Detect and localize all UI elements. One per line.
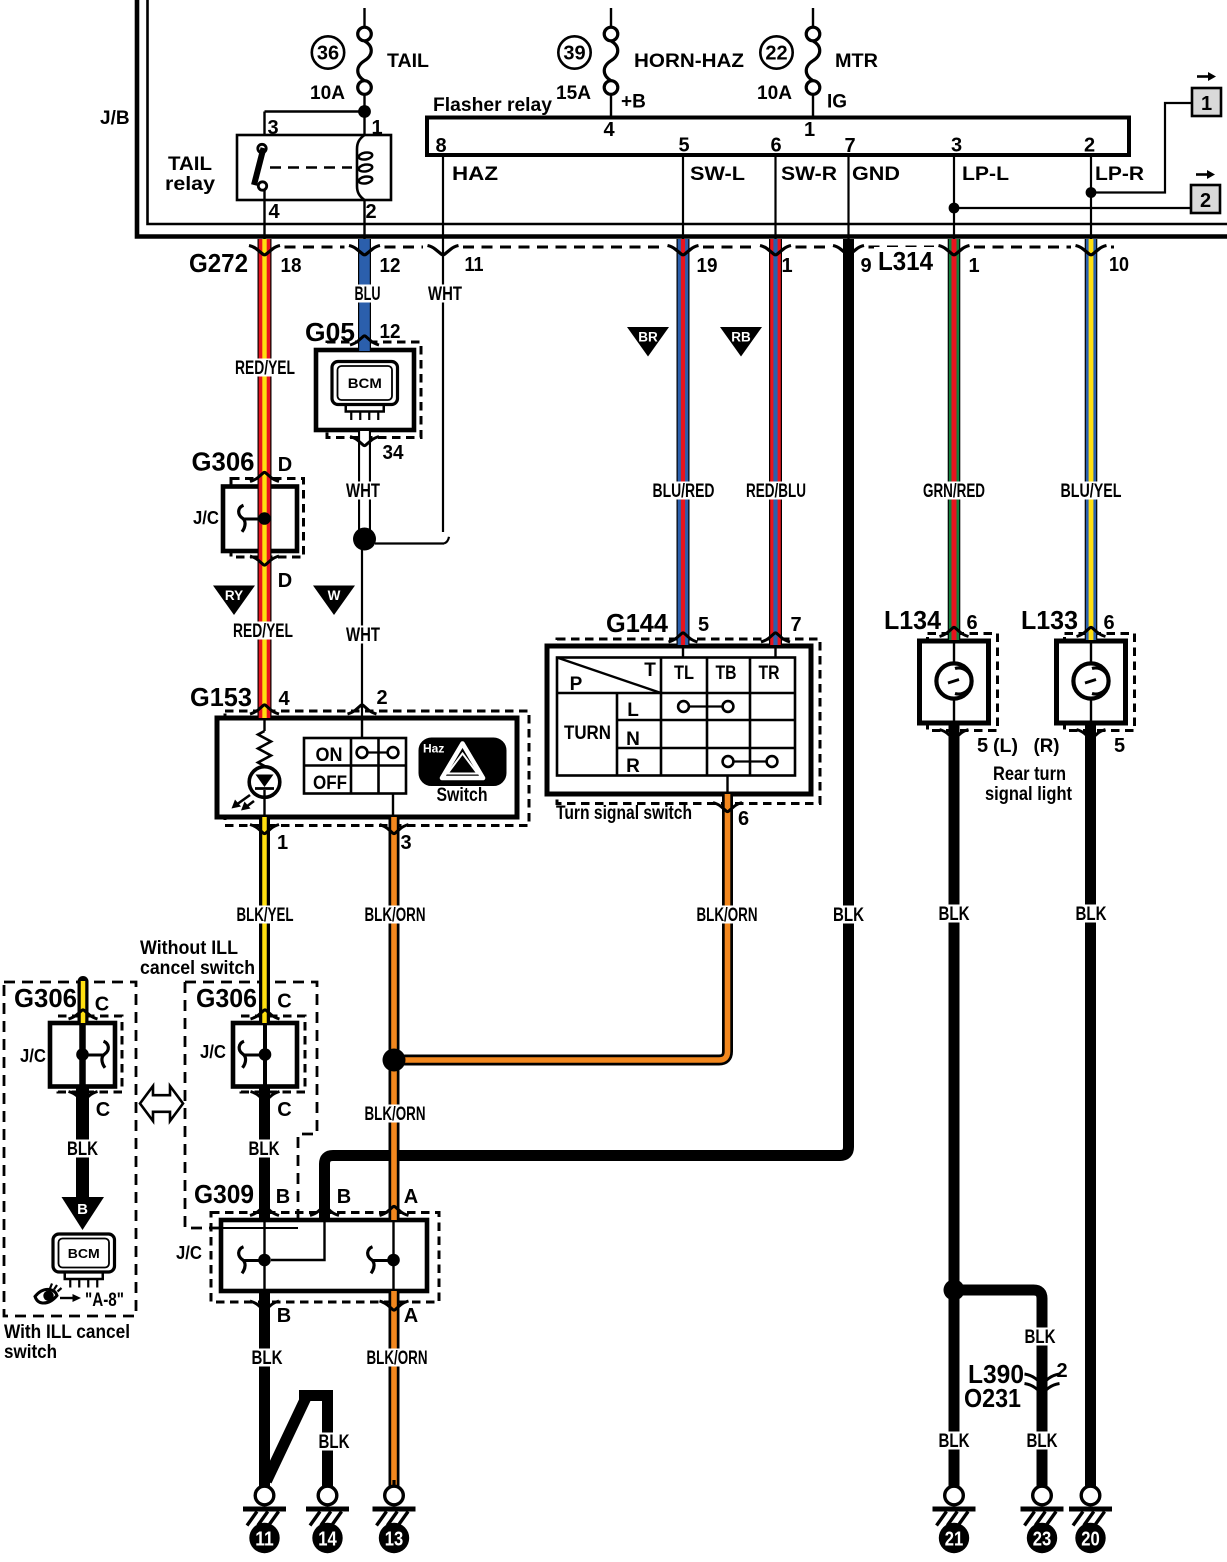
svg-text:BLK/YEL: BLK/YEL: [237, 905, 294, 926]
svg-text:4: 4: [268, 201, 280, 223]
svg-text:GND: GND: [852, 164, 900, 185]
label BLK (to ground 21): [936, 1432, 973, 1450]
label BLK/ORN (from G144): [694, 906, 761, 924]
G306 center line: [263, 487, 265, 552]
svg-text:9: 9: [860, 255, 871, 277]
svg-text:LP-R: LP-R: [1095, 164, 1144, 185]
color code arrow W: [313, 586, 355, 616]
wire GND (pin 7) down: [847, 155, 849, 240]
label WHT (lower): [343, 626, 383, 644]
label RED/BLU: [743, 482, 809, 500]
flasher relay box: [427, 118, 1129, 156]
G306 without-ILL pin C chevron (top): [251, 1010, 280, 1019]
svg-text:1: 1: [277, 832, 288, 854]
svg-text:BCM: BCM: [348, 375, 382, 391]
svg-text:BLK: BLK: [939, 904, 970, 925]
G306 without-ILL pin C chevron (bottom): [251, 1092, 280, 1101]
svg-text:Switch: Switch: [437, 785, 488, 806]
label BLK (to ground 11): [249, 1349, 286, 1367]
svg-text:W: W: [328, 588, 341, 603]
svg-text:BLK: BLK: [939, 1431, 970, 1452]
wire G144 pin7 stub: [774, 646, 776, 658]
svg-text:BCM: BCM: [68, 1246, 100, 1261]
bulb (rear turn signal L133): [1090, 641, 1092, 664]
svg-text:WHT: WHT: [346, 625, 380, 646]
svg-text:L134: L134: [884, 605, 942, 635]
svg-text:5: 5: [698, 614, 709, 636]
svg-text:TAIL: TAIL: [387, 51, 429, 72]
node fuse36/relay junction: [358, 105, 371, 118]
wire BLK (L133-5 to ground 20): [1085, 723, 1096, 1487]
svg-text:OFF: OFF: [313, 773, 347, 794]
label RED/YEL (lower): [230, 622, 296, 640]
G306 with-ILL center line: [79, 1023, 86, 1087]
wire BLK/YEL (G153-1 to G306-C): [259, 817, 270, 1023]
L134 solid box: [920, 641, 989, 723]
svg-text:HAZ: HAZ: [452, 164, 498, 185]
sheet reference box 2: [1196, 173, 1208, 176]
svg-text:1: 1: [968, 255, 979, 277]
label BLK/ORN (below junction): [362, 1105, 429, 1123]
svg-text:J/C: J/C: [200, 1042, 226, 1062]
fuse 39 HORN-HAZ 15A: [610, 8, 612, 27]
svg-text:J/C: J/C: [176, 1243, 202, 1263]
wire fuse 36 to TAIL relay pin 1: [363, 95, 365, 136]
svg-text:G272: G272: [189, 248, 248, 278]
svg-text:13: 13: [385, 1528, 404, 1551]
node LP-L branch: [949, 203, 960, 214]
wire BLK (G309-B to ground 11): [259, 1291, 270, 1487]
svg-text:2: 2: [365, 201, 376, 223]
wire BLK ground bus (G272-9 to G309-B): [325, 239, 849, 1220]
svg-text:BLK: BLK: [319, 1432, 350, 1453]
svg-text:Flasher relay: Flasher relay: [433, 94, 552, 116]
svg-text:G144: G144: [606, 608, 669, 638]
G144 R-row contacts: [723, 756, 734, 767]
connector G272/L314 dashed line: [285, 246, 1115, 249]
G309 right branch line: [392, 1220, 394, 1291]
svg-text:10A: 10A: [310, 83, 345, 104]
svg-text:B: B: [337, 1186, 351, 1208]
svg-text:4: 4: [603, 119, 615, 141]
with-ILL variant dashed enclosure: [4, 982, 136, 1316]
L134 dashed box: [928, 634, 998, 731]
eye arrow to A-8: [60, 1297, 73, 1299]
svg-text:BLK: BLK: [67, 1139, 98, 1160]
svg-text:20: 20: [1081, 1528, 1100, 1551]
wire +B into flasher pin 4: [610, 95, 612, 118]
connector chevron at pin 12: [349, 246, 380, 255]
fuse 36 circled number: [312, 36, 344, 68]
hazard switch icon: [420, 739, 506, 786]
wire G144 TB to pin 6: [726, 776, 728, 795]
G309 left branch line: [263, 1220, 265, 1291]
G309 right junction splice: [368, 1247, 374, 1274]
wire BLU/RED (SW-L to G144-5): [677, 239, 690, 645]
wire BLK/YEL stub (with ILL): [78, 976, 89, 987]
svg-text:C: C: [277, 1099, 291, 1121]
connector chevron at pin 10: [1076, 246, 1107, 255]
wire BLK branch to ground 23: [954, 1290, 1042, 1487]
G306 with-ILL solid box: [50, 1023, 115, 1087]
svg-text:1: 1: [371, 117, 382, 139]
svg-text:WHT: WHT: [428, 284, 462, 305]
label BLK (L134): [936, 905, 973, 923]
L133 dashed box: [1065, 634, 1135, 731]
svg-text:D: D: [278, 570, 292, 592]
G144 solid box: [547, 646, 811, 794]
svg-text:BLK/ORN: BLK/ORN: [365, 1104, 426, 1125]
svg-text:A: A: [404, 1186, 418, 1208]
svg-text:1: 1: [781, 255, 792, 277]
color code arrow RY: [213, 586, 255, 616]
svg-text:RED/BLU: RED/BLU: [746, 481, 806, 502]
svg-text:(R): (R): [1034, 736, 1060, 757]
svg-text:J/C: J/C: [20, 1046, 46, 1066]
svg-text:N: N: [626, 729, 640, 750]
G05 dashed box: [327, 342, 421, 438]
G306 with-ILL junction splice: [102, 1041, 108, 1068]
svg-text:"A-8": "A-8": [85, 1290, 124, 1311]
G144 dashed box: [557, 639, 820, 804]
G306 without-ILL junction splice: [239, 1041, 245, 1068]
node BLK/ORN junction: [383, 1049, 406, 1072]
TAIL relay box: [237, 135, 391, 200]
wire WHT (junction to G153-2): [361, 549, 363, 718]
wire LP-L (pin 3) down: [953, 155, 955, 240]
svg-text:1: 1: [1201, 93, 1212, 115]
G153 pin 3 chevron: [380, 825, 409, 834]
svg-text:B: B: [77, 1201, 88, 1218]
wire LP-L to sheet box 2: [954, 207, 1191, 209]
svg-text:22: 22: [765, 43, 787, 65]
svg-text:With ILL cancel: With ILL cancel: [4, 1321, 130, 1343]
wire arrowhead B (with ILL): [62, 1197, 105, 1230]
label BLK (to ground 23): [1024, 1432, 1061, 1450]
svg-text:34: 34: [383, 442, 405, 464]
svg-text:switch: switch: [4, 1341, 57, 1363]
svg-text:12: 12: [380, 321, 401, 343]
G153 pin 4 chevron: [250, 705, 279, 714]
label BLK/ORN (to ground 13): [364, 1349, 431, 1367]
G306 without-ILL solid box: [233, 1023, 297, 1087]
svg-text:G309: G309: [194, 1179, 254, 1209]
L133 pin 6 chevron: [1077, 627, 1106, 636]
svg-text:8: 8: [435, 135, 446, 157]
G306 solid box: [223, 487, 297, 552]
label connector L314: [874, 247, 937, 273]
svg-text:P: P: [570, 674, 583, 695]
color code arrow BR: [627, 327, 669, 357]
fuse 22 MTR 10A: [812, 8, 814, 27]
svg-text:D: D: [278, 454, 292, 476]
svg-text:21: 21: [945, 1528, 964, 1551]
label BLK (without ILL): [246, 1140, 283, 1158]
without-ILL variant dashed enclosure: [185, 982, 317, 1227]
svg-text:L133: L133: [1021, 605, 1078, 635]
svg-text:+B: +B: [621, 92, 646, 113]
wire BLK bridge (ground 14): [267, 1397, 307, 1482]
wire BLU/YEL (LP-R to L133-6): [1085, 239, 1098, 640]
svg-text:39: 39: [563, 43, 585, 65]
svg-text:BLK: BLK: [833, 905, 864, 926]
variant equivalence arrow: [140, 1086, 183, 1121]
wire TAIL relay pin 2 down: [363, 200, 365, 240]
G306 junction splice: [239, 505, 245, 532]
svg-text:5: 5: [977, 735, 988, 757]
connector chevron at pin 1: [760, 246, 791, 255]
wire RED/YEL (G272-18 to G153-4): [258, 239, 272, 718]
svg-text:6: 6: [966, 612, 977, 634]
label WHT (BCM out): [343, 482, 383, 500]
svg-text:MTR: MTR: [835, 51, 878, 72]
G306 with-ILL pin C chevron (top): [69, 1010, 98, 1019]
svg-text:BLK/ORN: BLK/ORN: [697, 905, 758, 926]
svg-text:RED/YEL: RED/YEL: [235, 358, 295, 379]
svg-text:signal light: signal light: [985, 784, 1073, 805]
svg-text:BLK: BLK: [249, 1139, 280, 1160]
svg-text:L314: L314: [878, 246, 933, 276]
G309 solid box: [221, 1220, 427, 1291]
node BLK branch (L134 ground): [944, 1280, 965, 1301]
wire BLU (G272-12 to G05-12): [358, 239, 371, 351]
svg-text:10A: 10A: [757, 83, 792, 104]
svg-text:relay: relay: [165, 174, 215, 195]
G309 pin B2 chevron: [310, 1206, 339, 1215]
ground 14: [326, 1480, 329, 1487]
wire RED/BLU (SW-R to G144-7): [769, 239, 782, 645]
L134 pin 6 chevron: [940, 627, 969, 636]
svg-text:Haz: Haz: [423, 742, 444, 756]
svg-text:C: C: [96, 1099, 110, 1121]
svg-text:BLU/YEL: BLU/YEL: [1061, 481, 1122, 502]
wire BLK/ORN (G144-6 to junction): [394, 794, 728, 1060]
resistor (G153 illumination): [263, 718, 265, 731]
G309 dashed box: [211, 1213, 439, 1303]
node WHT junction: [353, 528, 376, 551]
L133 solid box: [1057, 641, 1126, 723]
sheet reference box 1: [1197, 75, 1209, 78]
svg-text:SW-L: SW-L: [690, 164, 745, 185]
svg-text:6: 6: [738, 808, 749, 830]
svg-text:HORN-HAZ: HORN-HAZ: [634, 51, 744, 72]
ground 21: [952, 1480, 955, 1487]
svg-text:TURN: TURN: [564, 723, 611, 744]
svg-text:C: C: [95, 994, 109, 1016]
wire TAIL relay pin 4 down: [263, 190, 265, 240]
BCM icon (with ILL): [53, 1234, 115, 1272]
svg-text:LP-L: LP-L: [962, 164, 1009, 185]
svg-text:BLK: BLK: [1025, 1327, 1056, 1348]
svg-text:G306: G306: [192, 447, 255, 477]
svg-text:SW-R: SW-R: [781, 164, 837, 185]
G05 solid box: [316, 350, 414, 430]
TAIL relay coil: [357, 135, 365, 200]
svg-text:BR: BR: [638, 330, 658, 345]
svg-text:2: 2: [376, 687, 387, 709]
wire WHT (G05-34, double line): [358, 431, 371, 534]
connector chevron at pin 19: [668, 246, 699, 255]
G309 pin A bottom chevron: [380, 1301, 409, 1310]
svg-text:19: 19: [697, 255, 718, 277]
label RED/YEL (upper): [232, 359, 298, 377]
G309 pin B bottom chevron: [250, 1301, 279, 1310]
G153 ON contacts: [357, 747, 368, 758]
wire IG into flasher pin 1: [812, 95, 814, 118]
svg-text:GRN/RED: GRN/RED: [923, 481, 985, 502]
svg-text:B: B: [277, 1305, 291, 1327]
connector chevron at pin 18: [249, 246, 280, 255]
G306 with-ILL pin C chevron (bottom): [69, 1092, 98, 1101]
svg-text:2: 2: [1084, 135, 1095, 157]
svg-text:C: C: [277, 991, 291, 1013]
svg-text:WHT: WHT: [346, 481, 380, 502]
svg-text:O231: O231: [964, 1383, 1021, 1413]
ground 13: [392, 1480, 395, 1487]
LED light arrows: [236, 795, 250, 805]
G309 pin A top chevron: [380, 1206, 409, 1215]
label BLK/YEL: [234, 906, 297, 924]
wire BLK (L134-5 to ground 21): [949, 723, 960, 1487]
svg-text:G306: G306: [196, 983, 257, 1013]
G306 without-ILL dashed box: [241, 1016, 305, 1092]
wire SW-L (pin 5) down: [682, 155, 684, 240]
svg-text:R: R: [626, 756, 640, 777]
label BLK (with ILL): [64, 1140, 101, 1158]
svg-text:RY: RY: [225, 588, 243, 603]
svg-text:5: 5: [1114, 735, 1125, 757]
wire SW-R (pin 6) down: [774, 155, 776, 240]
fuse 36 TAIL 10A: [363, 8, 365, 27]
wire BLK (with ILL, to BCM): [76, 1087, 89, 1200]
wire LP-R (pin 2) down: [1090, 155, 1092, 240]
svg-text:J/C: J/C: [193, 508, 219, 528]
label BLK/ORN (from G153): [362, 906, 429, 924]
G309 left junction splice: [239, 1247, 245, 1274]
svg-text:G05: G05: [305, 317, 355, 347]
wire HAZ (pin 8) down: [442, 155, 444, 240]
wire G144 pin5 stub: [682, 646, 684, 658]
TAIL relay actuation dashed link: [270, 166, 352, 168]
eye reference symbol: [35, 1289, 57, 1303]
connector chevron at pin 1: [939, 246, 970, 255]
svg-text:BLK: BLK: [252, 1348, 283, 1369]
G05 pin 12 chevron: [350, 336, 379, 345]
label BLU/RED: [650, 482, 718, 500]
ground 11: [263, 1480, 266, 1487]
label BLK (ground 14): [316, 1433, 353, 1451]
svg-text:15A: 15A: [556, 83, 591, 104]
G306 with-ILL dashed box: [58, 1016, 122, 1092]
svg-text:BLK: BLK: [1027, 1431, 1058, 1452]
wire G153 pin2 to contact table: [361, 718, 363, 738]
G144 contact table: [557, 658, 795, 776]
svg-text:A: A: [404, 1305, 418, 1327]
svg-text:TL: TL: [674, 663, 694, 684]
svg-text:5: 5: [678, 135, 689, 157]
G309 internal link (B2 to splice): [271, 1220, 325, 1260]
svg-text:RB: RB: [731, 330, 751, 345]
svg-text:4: 4: [278, 688, 290, 710]
svg-text:BLU/RED: BLU/RED: [653, 481, 715, 502]
svg-text:(L): (L): [993, 736, 1018, 757]
label BLU: [352, 285, 384, 303]
svg-text:7: 7: [790, 614, 801, 636]
svg-text:36: 36: [317, 43, 339, 65]
connector chevron at pin 9: [833, 246, 864, 255]
color code arrow RB: [720, 327, 762, 357]
svg-text:RED/YEL: RED/YEL: [233, 621, 293, 642]
svg-text:3: 3: [951, 135, 962, 157]
svg-text:Without ILL: Without ILL: [140, 938, 238, 959]
svg-text:14: 14: [318, 1528, 337, 1551]
label WHT (pin11 wire): [425, 285, 465, 303]
G309 internal line (with-ILL boundary): [222, 1227, 298, 1229]
svg-text:BLK: BLK: [1076, 904, 1107, 925]
G309 pin B1 chevron: [250, 1206, 279, 1215]
label BLU/YEL: [1058, 482, 1125, 500]
G306 without-ILL center line: [263, 1023, 267, 1087]
wire LP-R to sheet box 1: [1091, 103, 1192, 193]
bulb (rear turn signal L134): [953, 641, 955, 664]
svg-text:2: 2: [1056, 1360, 1067, 1382]
G144 L-row contacts: [678, 701, 689, 712]
G306 pin D top chevron: [250, 472, 279, 481]
label GRN/RED: [920, 482, 988, 500]
G05 pin 34 chevron: [350, 437, 379, 446]
TAIL relay contact: [258, 144, 266, 152]
label BLK (branch upper): [1022, 1328, 1059, 1346]
G144 pin 7 chevron: [761, 633, 790, 642]
svg-text:T: T: [644, 660, 656, 681]
svg-text:1: 1: [804, 119, 815, 141]
G153 pin 1 chevron: [250, 825, 279, 834]
G153 pin 2 chevron: [348, 705, 377, 714]
svg-text:B: B: [276, 1186, 290, 1208]
ground 23: [1040, 1480, 1043, 1487]
G306 dashed box: [231, 479, 304, 558]
svg-text:11: 11: [465, 254, 484, 276]
G144 pin 5 chevron: [669, 633, 698, 642]
wire junction to TAIL relay pin 3: [265, 110, 366, 112]
svg-text:12: 12: [380, 255, 401, 277]
svg-text:6: 6: [770, 135, 781, 157]
svg-text:18: 18: [281, 255, 302, 277]
node LP-R branch: [1086, 187, 1097, 198]
svg-text:Turn signal switch: Turn signal switch: [556, 803, 692, 824]
label BLK (L133): [1073, 905, 1110, 923]
svg-text:2: 2: [1200, 190, 1211, 212]
J/B junction block boundary (outer line): [137, 0, 1227, 237]
svg-text:TAIL: TAIL: [168, 154, 212, 175]
svg-text:10: 10: [1109, 254, 1129, 276]
svg-text:11: 11: [255, 1528, 274, 1551]
wire BLK/ORN (G309-A to ground 13): [389, 1291, 400, 1487]
L133 pin 5 chevron: [1077, 730, 1106, 739]
svg-text:G306: G306: [14, 983, 77, 1013]
svg-text:cancel switch: cancel switch: [140, 958, 255, 979]
G306 pin D bottom chevron: [250, 556, 279, 565]
label BLK (ground bus): [830, 906, 867, 924]
svg-text:3: 3: [267, 117, 278, 139]
fuse 22 circled number: [760, 36, 792, 68]
J/B junction block boundary (inner line): [148, 0, 1227, 224]
svg-text:BLK/ORN: BLK/ORN: [367, 1348, 428, 1369]
ground 20: [1089, 1480, 1092, 1487]
svg-text:6: 6: [1103, 612, 1114, 634]
fuse 39 circled number: [558, 36, 590, 68]
G153 solid box: [217, 718, 517, 817]
